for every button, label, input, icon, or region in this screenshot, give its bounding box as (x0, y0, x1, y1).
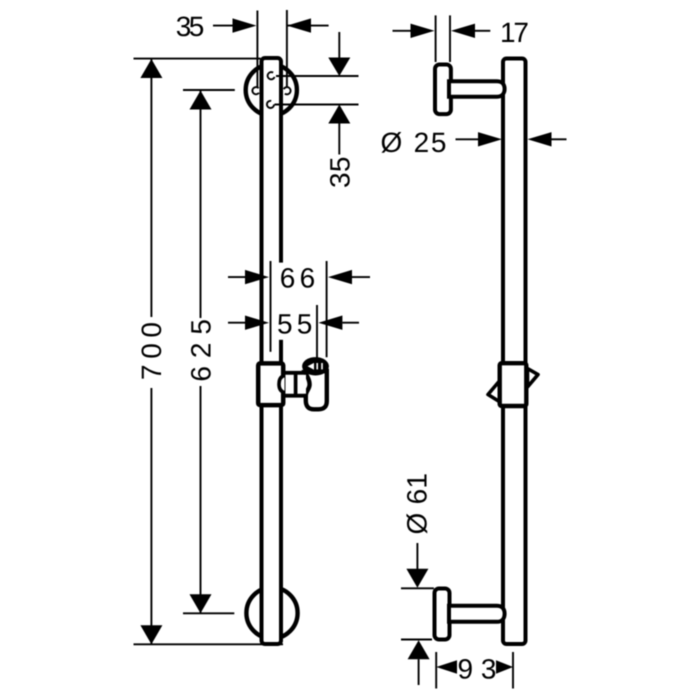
svg-text:35: 35 (176, 11, 205, 42)
svg-text:Ø 25: Ø 25 (381, 127, 447, 158)
svg-text:5 5: 5 5 (277, 308, 312, 339)
svg-text:7 0 0: 7 0 0 (136, 322, 167, 380)
svg-text:Ø 61: Ø 61 (402, 473, 433, 535)
svg-text:17: 17 (500, 17, 529, 48)
svg-text:6 2 5: 6 2 5 (186, 319, 217, 382)
svg-text:6 6: 6 6 (280, 263, 315, 294)
svg-text:9 3: 9 3 (458, 654, 497, 685)
svg-text:35: 35 (325, 157, 356, 189)
